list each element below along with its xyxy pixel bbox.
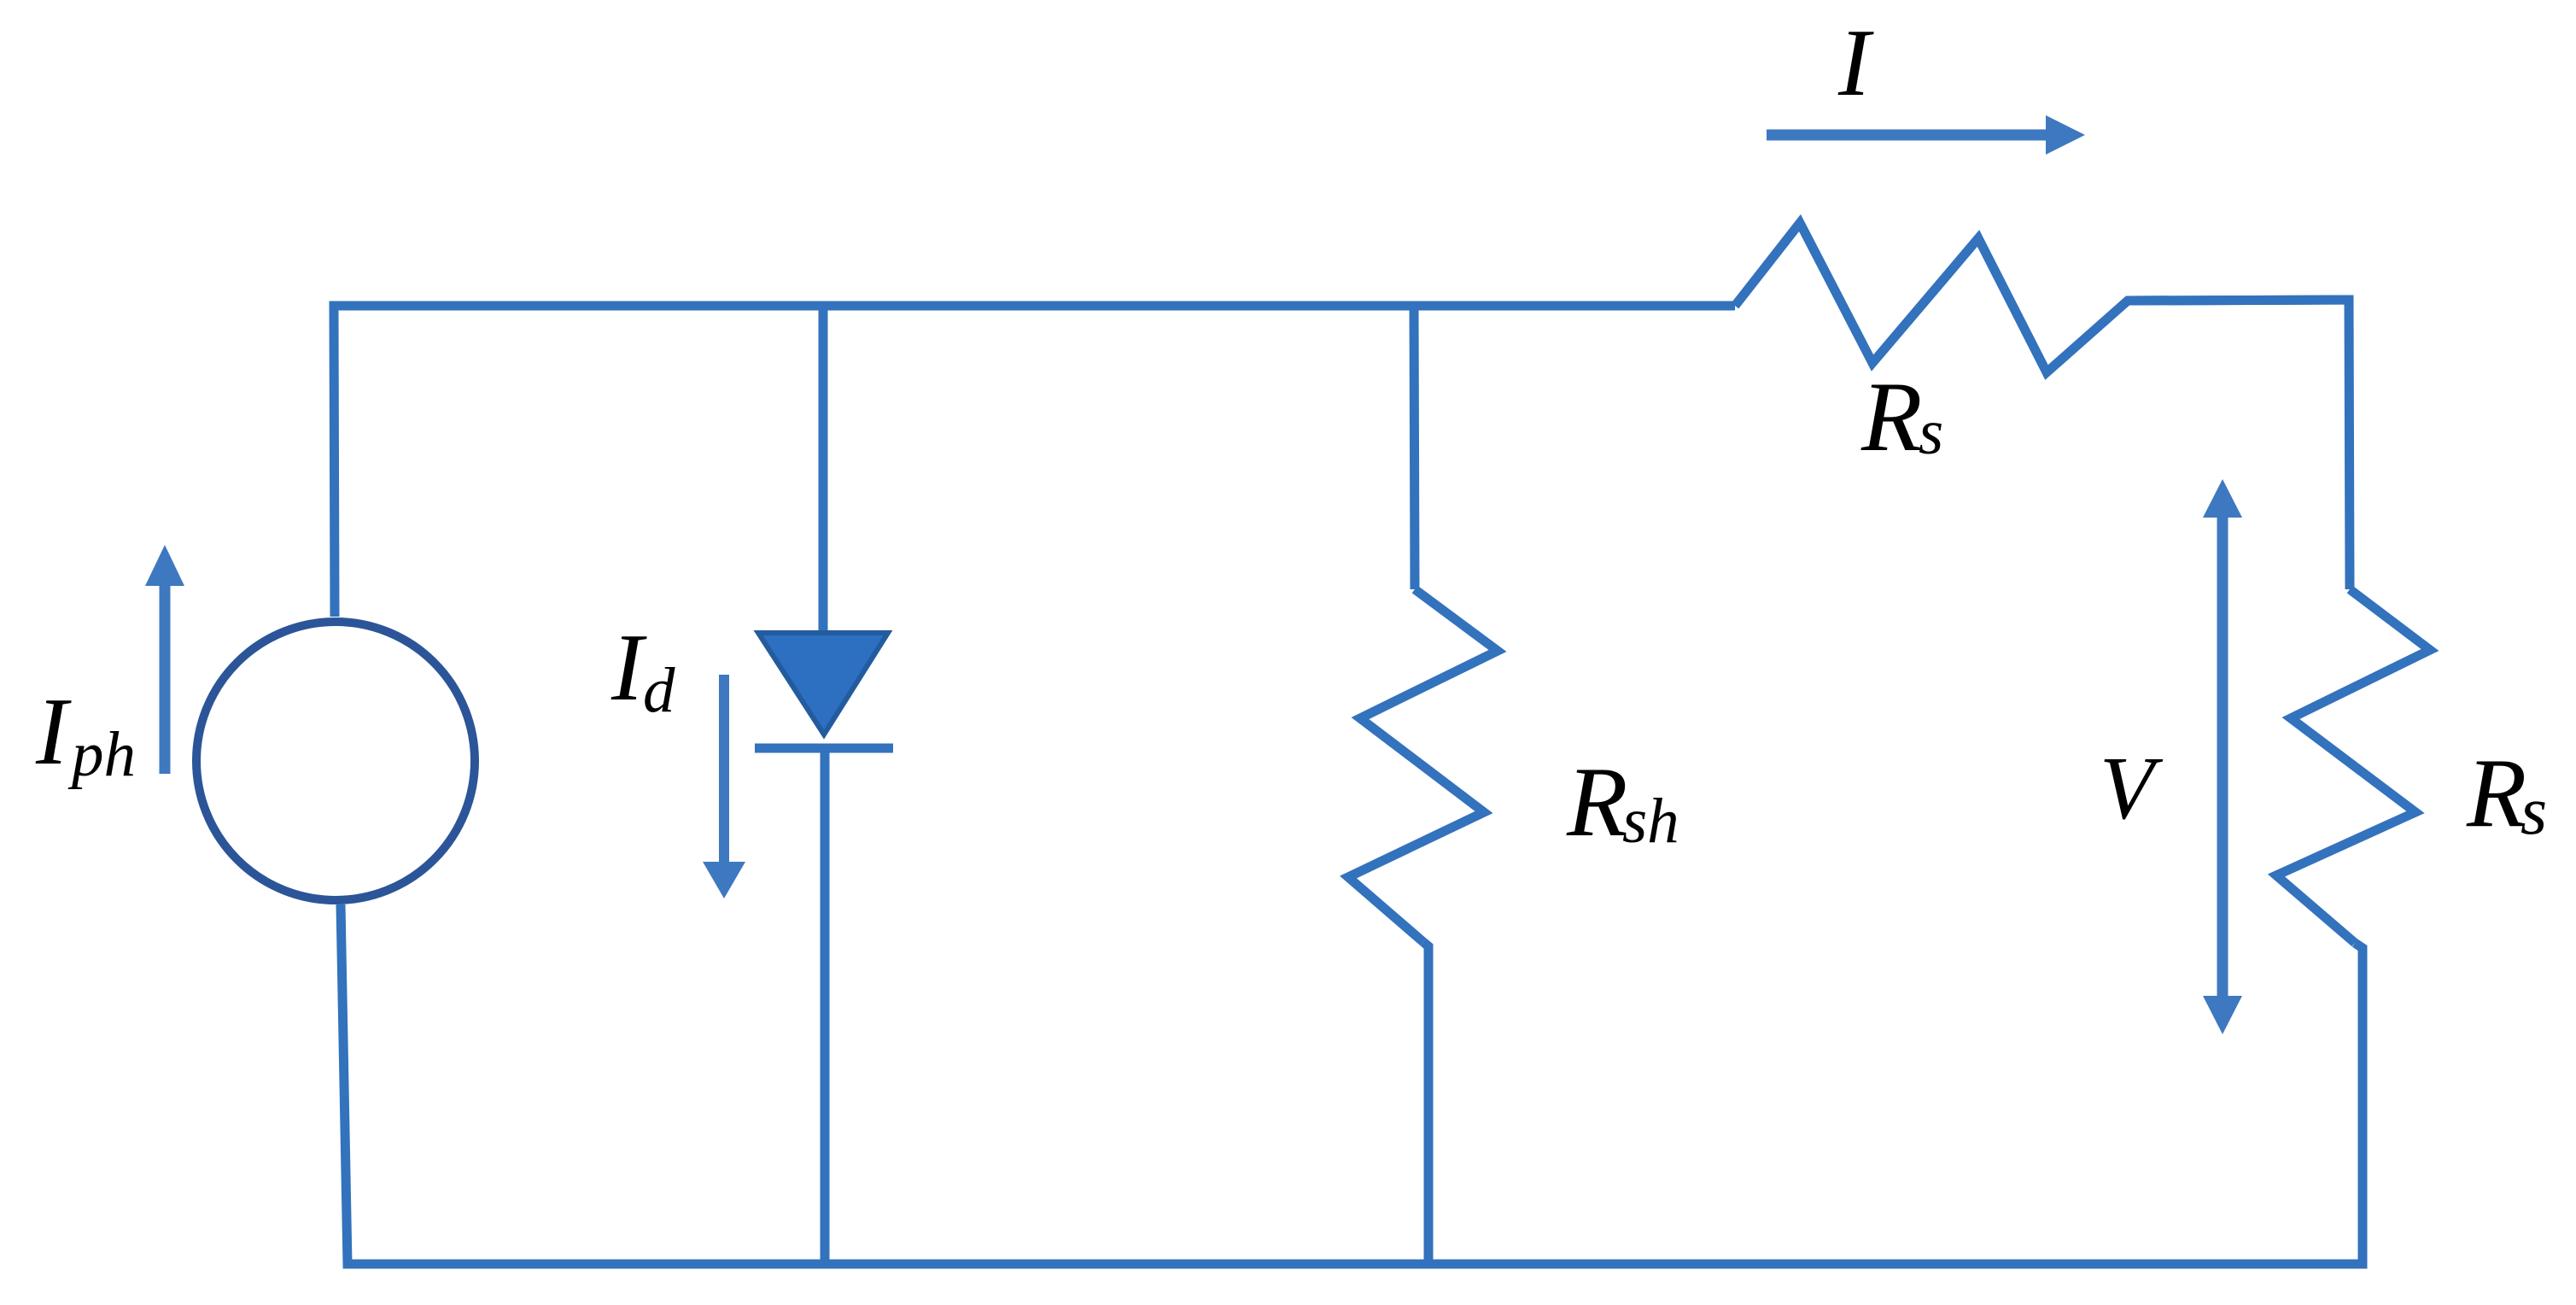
wire right vertical bottom, bottom horizontal, and left vertical bottom (341, 904, 2363, 1264)
svg-text:R: R (1566, 747, 1627, 857)
svg-text:s: s (1919, 397, 1943, 468)
svg-text:R: R (2466, 739, 2526, 847)
wire diode branch bottom (821, 748, 830, 1264)
svg-text:d: d (643, 655, 675, 726)
arrow Id (diode current, down) (719, 675, 729, 864)
arrow I (output current, right) (1767, 130, 2047, 141)
diode cathode bar (755, 744, 893, 753)
wire Rsh branch top (1414, 306, 1415, 589)
svg-text:I: I (610, 615, 647, 721)
svg-text:sh: sh (1622, 786, 1679, 857)
svg-text:I: I (35, 679, 72, 785)
svg-text:ph: ph (67, 719, 136, 790)
svg-text:I: I (1837, 10, 1874, 116)
arrow V (voltage, double-headed vertical) (2217, 516, 2228, 998)
resistor Rs (load, vertical zigzag) (2276, 589, 2430, 943)
wire diode branch top (819, 306, 828, 638)
arrow Iph (current direction, up) (160, 582, 171, 774)
resistor Rsh (shunt, vertical zigzag) (1348, 589, 1498, 942)
svg-text:s: s (2521, 774, 2547, 849)
diode D (triangle) (758, 633, 888, 734)
current source Iph (circle) (196, 622, 475, 900)
wire Rsh branch bottom (1423, 942, 1428, 1264)
wire right vertical top (2128, 300, 2350, 589)
svg-text:R: R (1860, 362, 1922, 472)
wire top-left and top horizontal (334, 306, 1735, 617)
svg-text:V: V (2100, 738, 2164, 838)
resistor Rs (series, horizontal zigzag) (1735, 223, 2349, 372)
